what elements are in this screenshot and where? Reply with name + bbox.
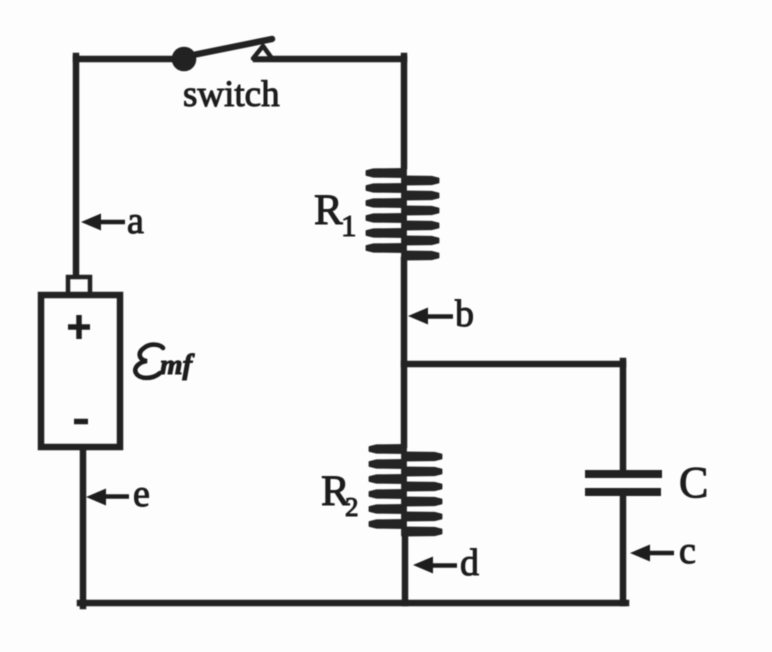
svg-text:R: R	[314, 187, 343, 234]
wire below battery	[80, 447, 87, 606]
battery minus sign	[74, 419, 88, 425]
svg-text:d: d	[460, 542, 479, 584]
node d arrow	[413, 557, 457, 574]
battery terminal nub	[68, 277, 90, 296]
battery Emf box	[41, 295, 120, 447]
wire below R2	[402, 533, 409, 603]
resistor R1 coil	[367, 169, 439, 260]
wire bottom horizontal	[80, 600, 626, 607]
battery plus sign	[68, 315, 90, 339]
node a arrow	[81, 214, 125, 231]
switch pivot dot	[172, 47, 197, 72]
svg-text:mf: mf	[160, 349, 196, 381]
wire capacitor branch lower	[620, 496, 627, 603]
svg-text:2: 2	[345, 492, 359, 522]
capacitor C plates	[585, 470, 662, 478]
svg-text:1: 1	[341, 208, 357, 243]
wire branch horizontal	[404, 361, 623, 368]
svg-text:e: e	[133, 473, 150, 515]
node b arrow	[408, 308, 453, 325]
svg-text:switch: switch	[183, 74, 280, 115]
wire top-left horizontal	[76, 56, 176, 63]
battery Emf script-E	[135, 345, 163, 378]
wire top-right horizontal	[256, 56, 404, 63]
node c arrow	[630, 545, 674, 562]
wire left vertical	[73, 56, 80, 279]
svg-text:b: b	[455, 293, 474, 335]
svg-text:C: C	[679, 458, 708, 507]
resistor R2 coil	[370, 445, 442, 536]
wire right vertical middle	[401, 260, 408, 445]
wire capacitor branch upper	[620, 361, 627, 470]
wire right vertical upper	[401, 56, 408, 166]
switch contact triangle	[253, 46, 272, 59]
switch lever	[188, 39, 272, 56]
node e arrow	[86, 489, 129, 506]
svg-text:c: c	[679, 530, 696, 572]
svg-text:a: a	[127, 200, 144, 242]
